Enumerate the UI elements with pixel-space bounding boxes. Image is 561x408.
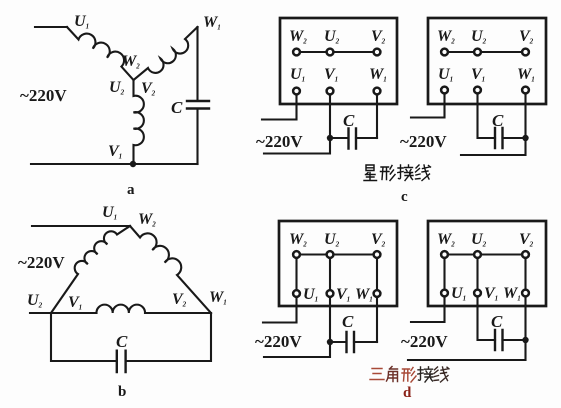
terminal W1 (d right) <box>522 290 529 297</box>
svg-text:C: C <box>116 332 128 351</box>
winding W1-V2 (coil, diagram a) <box>134 27 198 80</box>
capacitor C (d right) <box>495 330 503 350</box>
terminal box (d left) <box>279 221 397 306</box>
svg-text:U2: U2 <box>471 28 487 46</box>
svg-text:U1: U1 <box>74 13 89 31</box>
svg-text:W1: W1 <box>517 66 535 84</box>
link W2-U1 (d right) <box>443 257 445 290</box>
terminal V1 (c right) <box>474 87 481 94</box>
svg-text:U2: U2 <box>471 231 487 249</box>
link V2-W1 (d right) <box>524 257 526 290</box>
svg-text:U1: U1 <box>303 286 318 304</box>
terminal V2 (c right) <box>522 49 529 56</box>
wire U1 lead (c left) <box>262 95 297 120</box>
link U2-V1 (d left) <box>329 257 331 290</box>
winding U2-V1 (vertical coil, diagram a) <box>134 80 144 164</box>
terminal W2 (d right) <box>441 251 448 258</box>
terminal V1 (d right) <box>474 290 481 297</box>
svg-text:c: c <box>401 189 408 205</box>
svg-text:U1: U1 <box>290 66 305 84</box>
wire W1 lead (d left) <box>376 297 378 342</box>
svg-text:~220V: ~220V <box>20 86 67 105</box>
node junction on W1 wire (c right) <box>522 135 528 141</box>
shorting bar W2-U2-V2 (c left) <box>297 51 378 53</box>
terminal W2 (c left) <box>293 49 300 56</box>
svg-text:V1: V1 <box>336 286 350 304</box>
terminal U2 (d left) <box>327 251 334 258</box>
wire b right vertical to capacitor loop <box>126 313 211 361</box>
terminal W2 (d left) <box>293 251 300 258</box>
svg-text:C: C <box>492 111 504 130</box>
terminal U2 (c right) <box>474 49 481 56</box>
shorting bar W2-U2-V2 (d left) <box>297 254 378 256</box>
svg-text:C: C <box>343 111 355 130</box>
svg-text:V2: V2 <box>172 291 187 309</box>
wire V1 lead to capacitor (c right) <box>478 94 496 139</box>
capacitor C (c right) <box>495 128 503 148</box>
terminal U1 (d right) <box>441 290 448 297</box>
wire W1 lead down-left (d right) <box>408 297 526 361</box>
wire V1 lead to capacitor (d right) <box>478 297 496 341</box>
svg-text:d: d <box>403 385 412 401</box>
terminal box (d right) <box>428 221 546 306</box>
terminal U2 (d right) <box>474 251 481 258</box>
svg-text:C: C <box>171 98 183 117</box>
wire capacitor right lead (d left) <box>354 341 377 343</box>
svg-text:V2: V2 <box>371 28 386 46</box>
wire capacitor right lead (c right) <box>503 137 526 139</box>
svg-text:W1: W1 <box>369 66 387 84</box>
svg-text:W2: W2 <box>289 28 307 46</box>
svg-text:C: C <box>342 312 354 331</box>
caption 三角形接线 (delta connection, drawn glyphs) <box>370 367 449 383</box>
svg-text:U1: U1 <box>102 204 117 222</box>
winding U1-W2 left side (coil, diagram b) <box>51 226 130 313</box>
svg-text:V2: V2 <box>141 80 156 98</box>
svg-text:W1: W1 <box>503 285 521 303</box>
wire U1 lead (c right) <box>411 94 445 118</box>
winding V1-V2 bottom (coil, diagram b) <box>51 305 211 313</box>
wire capacitor left lead (c left) <box>330 137 348 139</box>
terminal U2 (c left) <box>327 49 334 56</box>
svg-text:V2: V2 <box>371 231 386 249</box>
wire W1 lead (c left) <box>376 95 378 139</box>
capacitor C (d left) <box>347 332 355 352</box>
terminal V2 (c left) <box>374 49 381 56</box>
terminal V1 (c left) <box>327 88 334 95</box>
wire a top-left lead <box>35 26 67 28</box>
svg-text:U2: U2 <box>324 28 340 46</box>
svg-text:V2: V2 <box>519 28 534 46</box>
winding U1-W2 (coil, diagram a) <box>67 27 134 80</box>
terminal W1 (c right) <box>522 87 529 94</box>
link V2-W1 (d left) <box>376 257 378 290</box>
link U2-V1 (d right) <box>476 257 478 290</box>
svg-text:W2: W2 <box>437 28 455 46</box>
wire U1 lead (d left) <box>263 297 297 323</box>
svg-text:V1: V1 <box>68 294 82 312</box>
terminal U1 (d left) <box>293 290 300 297</box>
svg-text:V2: V2 <box>519 231 534 249</box>
node junction on W1 wire (d right) <box>522 337 528 343</box>
wire a right vertical lower <box>196 110 198 165</box>
wire U1 lead (d right) <box>411 297 445 323</box>
svg-text:a: a <box>127 182 135 198</box>
svg-text:~220V: ~220V <box>401 332 448 351</box>
svg-text:V1: V1 <box>471 66 485 84</box>
svg-text:~220V: ~220V <box>400 132 447 151</box>
wire capacitor right lead (c left) <box>356 137 377 139</box>
svg-text:W2: W2 <box>138 211 156 229</box>
terminal box (c right) <box>428 18 546 104</box>
svg-text:V1: V1 <box>324 66 338 84</box>
capacitor C (diagram a) <box>187 101 209 109</box>
wire V1 lead down-left (c left) <box>264 95 330 154</box>
svg-text:b: b <box>118 384 126 400</box>
link W2-U1 (d left) <box>295 257 297 290</box>
svg-text:U2: U2 <box>324 231 340 249</box>
wire capacitor right lead (d right) <box>503 339 526 341</box>
terminal U1 (c right) <box>441 87 448 94</box>
wire b left vertical to capacitor loop <box>51 313 117 361</box>
winding W2-W1 right side (coil, diagram b) <box>130 226 211 313</box>
terminal W1 (d left) <box>374 290 381 297</box>
wire b top lead <box>32 225 130 227</box>
svg-text:W1: W1 <box>355 286 373 304</box>
svg-text:U1: U1 <box>451 285 466 303</box>
svg-text:U1: U1 <box>438 66 453 84</box>
capacitor C (diagram b) <box>117 351 126 372</box>
terminal box (c left) <box>280 18 397 104</box>
node junction V1-bottom (diagram a) <box>130 161 136 167</box>
shorting bar W2-U2-V2 (c right) <box>445 51 526 53</box>
terminal W2 (c right) <box>441 49 448 56</box>
wire b left stub <box>30 312 51 314</box>
caption 星形接线 (star connection, drawn glyphs) <box>364 165 431 181</box>
wire W1 lead down-left (c right) <box>461 94 526 156</box>
svg-text:U2: U2 <box>109 79 125 97</box>
svg-text:W2: W2 <box>122 53 140 71</box>
node junction on V1 wire (d left) <box>327 339 333 345</box>
terminal V1 (d left) <box>327 290 334 297</box>
wire V1 lead down-left (d left) <box>264 297 330 357</box>
svg-text:W2: W2 <box>289 231 307 249</box>
terminal U1 (c left) <box>293 88 300 95</box>
terminal V2 (d right) <box>522 251 529 258</box>
capacitor C (c left) <box>349 129 357 149</box>
svg-text:W1: W1 <box>203 14 221 32</box>
svg-text:V1: V1 <box>108 143 122 161</box>
svg-text:U2: U2 <box>27 292 43 310</box>
wire a right vertical upper <box>196 27 198 100</box>
svg-text:~220V: ~220V <box>255 332 302 351</box>
svg-text:C: C <box>491 312 503 331</box>
wire a bottom lead <box>31 163 198 165</box>
svg-text:~220V: ~220V <box>256 132 303 151</box>
terminal W1 (c left) <box>374 88 381 95</box>
svg-text:W2: W2 <box>437 231 455 249</box>
svg-text:W1: W1 <box>209 289 227 307</box>
svg-text:V1: V1 <box>484 285 498 303</box>
node junction on V1 wire (c left) <box>327 135 333 141</box>
terminal V2 (d left) <box>374 251 381 258</box>
shorting bar W2-U2-V2 (d right) <box>445 254 526 256</box>
svg-text:~220V: ~220V <box>18 253 65 272</box>
wire capacitor left lead (d left) <box>330 341 346 343</box>
